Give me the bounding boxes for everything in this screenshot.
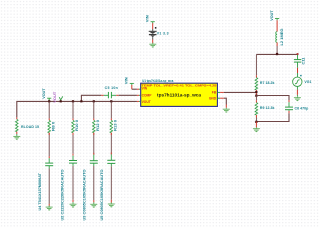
svg-text:COMP: COMP bbox=[142, 93, 153, 97]
wire COMP to C5 bbox=[119, 94, 137, 96]
svg-text:R12 0: R12 0 bbox=[96, 120, 100, 131]
wire R8 to U2 cap bbox=[48, 133, 50, 157]
svg-text:R7 18.2k: R7 18.2k bbox=[260, 81, 275, 85]
wire V1 top bbox=[152, 23, 154, 29]
junction bottom node bbox=[255, 121, 257, 123]
svg-text:TEMP TOL_VREF=0.41 TOL_GMPS=4.: TEMP TOL_VREF=0.41 TOL_GMPS=4.28 bbox=[142, 83, 217, 87]
op-amp U1 tps7h1101a-sp_wca bbox=[141, 79, 218, 107]
node VIN net flag at U1 bbox=[125, 77, 134, 85]
svg-text:R13 0: R13 0 bbox=[114, 120, 118, 131]
node VOUT voltage pin probe bbox=[53, 91, 63, 103]
resistor R8 0 bbox=[48, 120, 56, 132]
capacitor column 5 bbox=[107, 160, 115, 163]
svg-text:VOUT: VOUT bbox=[142, 100, 151, 104]
svg-text:VIN: VIN bbox=[142, 87, 148, 91]
capacitor U5 bbox=[90, 161, 104, 221]
wire node to ground bbox=[255, 122, 257, 128]
svg-text:U1 tps7h1101a-sp_wca: U1 tps7h1101a-sp_wca bbox=[142, 79, 173, 83]
svg-text:U2 C2220C226K5RACAUTO: U2 C2220C226K5RACAUTO bbox=[60, 169, 64, 221]
wire top horizontal bbox=[256, 53, 297, 55]
capacitor C11 bbox=[294, 57, 306, 64]
svg-text:GND: GND bbox=[209, 97, 217, 101]
wire RLOAD to ground bbox=[16, 132, 18, 134]
node VOUT net flag top right bbox=[270, 10, 279, 21]
wire VOUT flag to L2 bbox=[276, 20, 278, 31]
junction bus x=81.4 bbox=[80, 100, 82, 102]
node VIN net flag at voltage source bbox=[146, 15, 155, 24]
resistor R10 0 bbox=[72, 120, 80, 133]
wire FB node to R9 bbox=[255, 96, 257, 101]
node VOUT net flag on bus bbox=[42, 88, 51, 102]
wire column R10 bbox=[72, 101, 74, 118]
wire V1 bottom bbox=[152, 40, 154, 44]
inductor L2 1MEG bbox=[276, 28, 284, 45]
junction bus x=73 bbox=[72, 100, 74, 102]
svg-text:VOUT: VOUT bbox=[42, 88, 46, 99]
ground at RLOAD bbox=[13, 135, 20, 140]
svg-text:RLOAD 15: RLOAD 15 bbox=[21, 125, 39, 129]
svg-text:V1 3.3: V1 3.3 bbox=[157, 32, 169, 36]
ground at U1 GND bbox=[223, 108, 230, 113]
svg-text:VOUT: VOUT bbox=[53, 91, 57, 103]
svg-text:R10 0: R10 0 bbox=[75, 120, 79, 131]
svg-text:L2 1MEG: L2 1MEG bbox=[280, 28, 284, 45]
wire L2 to top node bbox=[276, 42, 278, 46]
svg-text:U3 C0805C105K5RACAUTO: U3 C0805C105K5RACAUTO bbox=[83, 169, 87, 221]
resistor R9 12.3k bbox=[255, 103, 274, 115]
svg-text:U5 C0805C105K5RACAUTO: U5 C0805C105K5RACAUTO bbox=[100, 169, 104, 221]
wire C11 to VG1 bbox=[297, 62, 299, 68]
capacitor U2 bbox=[45, 163, 64, 220]
wire column R8 bbox=[48, 101, 50, 118]
wire U2 to ground bbox=[48, 166, 50, 169]
resistor R12 0 bbox=[93, 120, 101, 133]
resistor R7 18.2k bbox=[255, 78, 274, 90]
ground at V1 bbox=[149, 43, 156, 48]
ground at VG1 bbox=[294, 96, 301, 101]
wire VOUT bus bbox=[139, 100, 140, 102]
wire column R12 bbox=[93, 101, 95, 118]
wire VG1 to ground bbox=[296, 87, 298, 90]
wire R9 to bottom node bbox=[255, 115, 257, 118]
ground at U2 bbox=[46, 206, 53, 211]
wire C5 to bus stub bbox=[81, 95, 101, 101]
svg-text:VIN: VIN bbox=[125, 77, 129, 84]
junction FB node bbox=[255, 91, 257, 93]
wire R10 to U3 cap bbox=[72, 133, 74, 154]
wire top to C11 bbox=[297, 54, 299, 59]
svg-text:C6 470p: C6 470p bbox=[295, 106, 309, 110]
junction bus x=60.7 bbox=[60, 100, 62, 102]
junction bus x=49.2 bbox=[48, 100, 50, 102]
wire U5 to ground bbox=[93, 163, 95, 166]
wire VIN flag to U1 pin bbox=[131, 85, 133, 89]
junction comp node bbox=[255, 95, 257, 97]
capacitor C5 10n bbox=[101, 86, 119, 98]
svg-text:VOUT: VOUT bbox=[270, 10, 274, 21]
wire R12 to U5 cap bbox=[93, 133, 95, 155]
wire R13 to cap bbox=[110, 133, 112, 155]
wire R7 to FB node bbox=[255, 90, 257, 96]
svg-text:R8 0: R8 0 bbox=[51, 122, 55, 131]
wire column R13 bbox=[110, 101, 112, 118]
svg-text:C5 10n: C5 10n bbox=[105, 86, 119, 90]
wire FB node to C6 bbox=[256, 96, 289, 101]
svg-text:tps7h1101a-sp_wca: tps7h1101a-sp_wca bbox=[157, 92, 202, 97]
wire cap5 to ground bbox=[110, 163, 112, 166]
ground at U5 bbox=[90, 203, 97, 208]
svg-text:VG1: VG1 bbox=[304, 80, 311, 84]
resistor RLOAD 15 bbox=[15, 119, 39, 131]
wire C6 bottom to node bbox=[256, 113, 289, 121]
capacitor C6 470p bbox=[285, 102, 308, 113]
junction bus x=93.8 bbox=[93, 100, 95, 102]
svg-text:C11: C11 bbox=[302, 57, 306, 64]
ground at R9/C6 bbox=[253, 127, 260, 132]
ground at column 5 bbox=[108, 203, 115, 208]
ground at U3 bbox=[70, 203, 77, 208]
junction bus x=111.3 bbox=[110, 100, 112, 102]
wire top to R7 bbox=[255, 54, 257, 75]
svg-text:VIN: VIN bbox=[146, 15, 150, 22]
wire U3 to ground bbox=[72, 163, 74, 166]
wire GND pin bbox=[217, 97, 220, 99]
generator VG1 bbox=[293, 75, 312, 87]
svg-text:FB: FB bbox=[212, 90, 217, 94]
capacitor U3 bbox=[69, 161, 87, 221]
resistor R13 0 bbox=[110, 120, 118, 133]
svg-text:U4 T541X157M006AT: U4 T541X157M006AT bbox=[38, 173, 42, 211]
junction top node bbox=[276, 53, 278, 55]
svg-text:R9 12.3k: R9 12.3k bbox=[260, 106, 275, 110]
wire FB pin bbox=[217, 91, 220, 93]
voltage source V1 3.3 bbox=[149, 27, 169, 39]
